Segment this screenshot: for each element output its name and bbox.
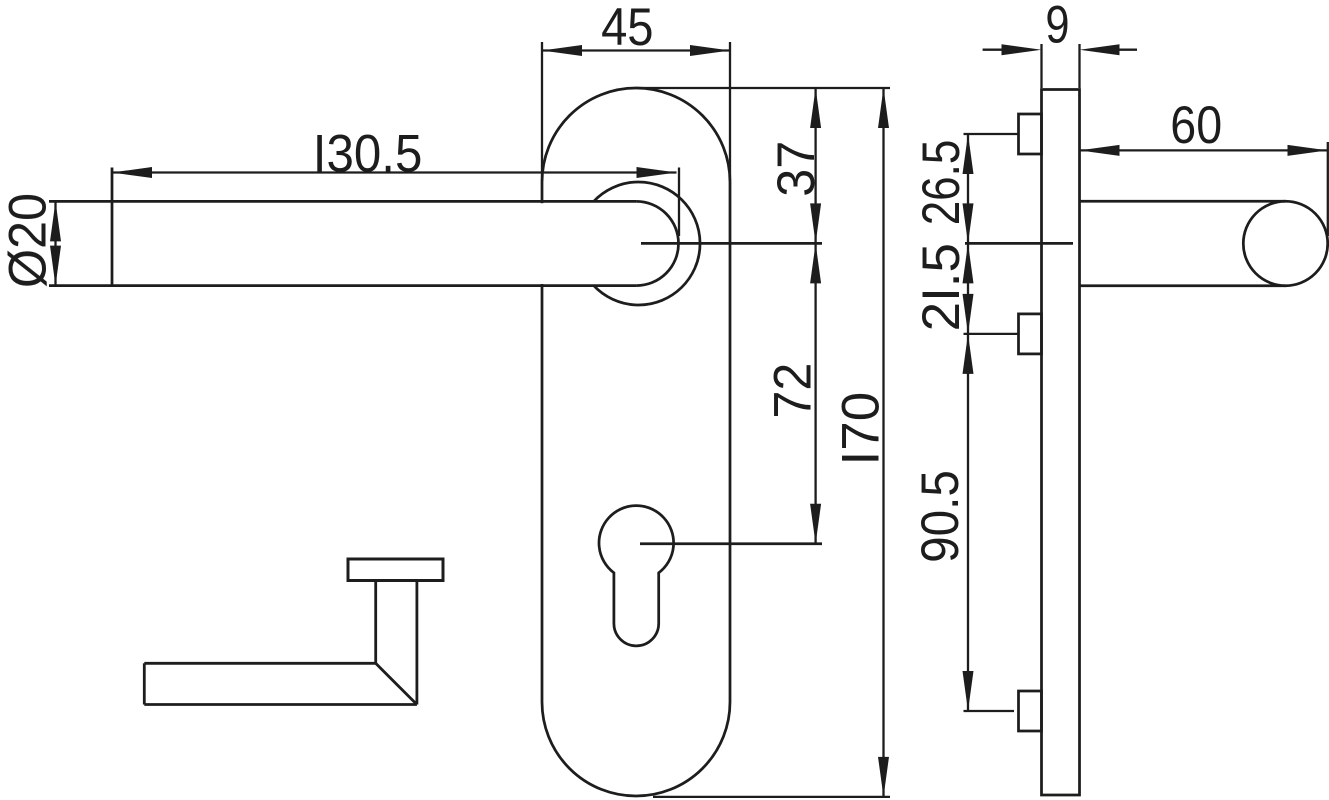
dimension 130.5 right tick (678, 168, 680, 237)
dimension 60 (1080, 149, 1328, 151)
euro cylinder keyhole (599, 506, 674, 646)
side lever grip circle (1243, 201, 1327, 285)
lever bar top edge (49, 200, 636, 203)
wire: rose centre line (641, 242, 822, 245)
svg-text:45: 45 (601, 0, 653, 56)
extension line plate bottom (653, 796, 890, 798)
wire: erase plate left edge behind lever bar (539, 203, 545, 284)
backplate front view (stadium outline) (542, 88, 730, 796)
bottom view: neck left (374, 581, 377, 664)
fixing lug top (1019, 114, 1042, 154)
dimension 130.5 line (112, 171, 677, 173)
svg-text:2I.5: 2I.5 (912, 243, 971, 331)
svg-text:I30.5: I30.5 (313, 124, 423, 183)
dimension 45 line (542, 49, 730, 51)
lever bar rounded end cap (636, 201, 678, 285)
bottom view: neck right (415, 581, 418, 705)
wire: side centre line (965, 242, 1073, 245)
side view backplate (1042, 90, 1080, 796)
wire: keyhole centre line (640, 542, 822, 545)
bottom view: grip left end (143, 663, 146, 704)
bottom view: grip top (144, 662, 375, 665)
svg-text:37: 37 (766, 141, 825, 197)
svg-text:26.5: 26.5 (912, 140, 971, 226)
svg-text:72: 72 (762, 363, 821, 419)
bottom view: rose flange (348, 559, 443, 581)
dimension 170 line (882, 88, 884, 797)
svg-text:9: 9 (1045, 0, 1069, 55)
side lever neck bottom (1080, 284, 1286, 287)
lever bar left end (111, 168, 114, 287)
dimension 45 extension left (541, 42, 543, 181)
rose circle on plate (clipped behind lever bar) (594, 182, 700, 305)
dimension 45 extension right (729, 42, 731, 181)
side lever neck top (1080, 200, 1286, 203)
lug extension lines (964, 133, 1020, 135)
dimension 9 (1040, 44, 1042, 88)
fixing lug middle (1019, 314, 1042, 354)
svg-text:90.5: 90.5 (910, 470, 970, 563)
dimension 26.5/21.5/90.5 column (967, 134, 969, 711)
lever bar bottom edge (49, 284, 636, 287)
dimension dia20 line (54, 201, 56, 285)
fixing lug bottom (1019, 691, 1042, 731)
svg-text:I70: I70 (832, 392, 891, 466)
bottom view: grip bottom (144, 703, 417, 706)
svg-text:60: 60 (1170, 95, 1222, 154)
dimension 37/72 column (814, 88, 816, 544)
extension line plate top (636, 87, 890, 89)
svg-text:Ø20: Ø20 (0, 193, 57, 288)
bottom view: mitre diagonal (376, 663, 417, 704)
